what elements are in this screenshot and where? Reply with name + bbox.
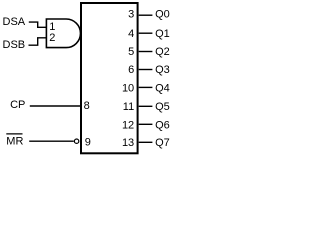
svg-text:11: 11	[123, 101, 134, 113]
svg-text:Q7: Q7	[155, 137, 170, 149]
svg-text:2: 2	[49, 32, 55, 44]
wire Q4 stub	[139, 86, 153, 88]
svg-text:9: 9	[85, 136, 91, 148]
svg-text:1: 1	[49, 21, 55, 33]
svg-text:10: 10	[122, 83, 134, 95]
svg-text:Q1: Q1	[155, 28, 170, 40]
svg-text:DSA: DSA	[3, 16, 26, 28]
wire Q3 stub	[139, 69, 153, 71]
svg-text:Q2: Q2	[155, 46, 170, 58]
wire Q2 stub	[139, 51, 153, 53]
wire Q6 stub	[139, 123, 153, 125]
wire DSB	[29, 38, 47, 45]
net label MR (with overline)	[6, 134, 23, 147]
svg-text:6: 6	[128, 64, 134, 76]
svg-text:Q4: Q4	[155, 83, 170, 95]
wire CP	[30, 105, 80, 107]
wire MR	[29, 140, 74, 142]
inverter bubble pin 9	[74, 139, 78, 143]
svg-text:3: 3	[128, 9, 134, 21]
svg-text:MR: MR	[6, 135, 23, 147]
svg-text:5: 5	[128, 46, 134, 58]
svg-text:12: 12	[122, 119, 134, 131]
IC body U1	[81, 3, 138, 153]
svg-text:Q0: Q0	[155, 9, 170, 21]
and-gate U1A	[46, 19, 80, 48]
svg-text:8: 8	[84, 100, 90, 112]
svg-text:13: 13	[122, 137, 134, 149]
svg-text:4: 4	[128, 28, 134, 40]
svg-text:Q5: Q5	[155, 101, 170, 113]
wire DSA	[29, 22, 47, 27]
svg-text:Q6: Q6	[155, 119, 170, 131]
wire Q0 stub	[139, 14, 153, 16]
svg-text:CP: CP	[10, 99, 25, 111]
wire Q7 stub	[139, 141, 153, 143]
wire Q1 stub	[139, 32, 153, 34]
svg-text:Q3: Q3	[155, 64, 170, 76]
wire Q5 stub	[139, 105, 153, 107]
svg-text:DSB: DSB	[3, 39, 26, 51]
